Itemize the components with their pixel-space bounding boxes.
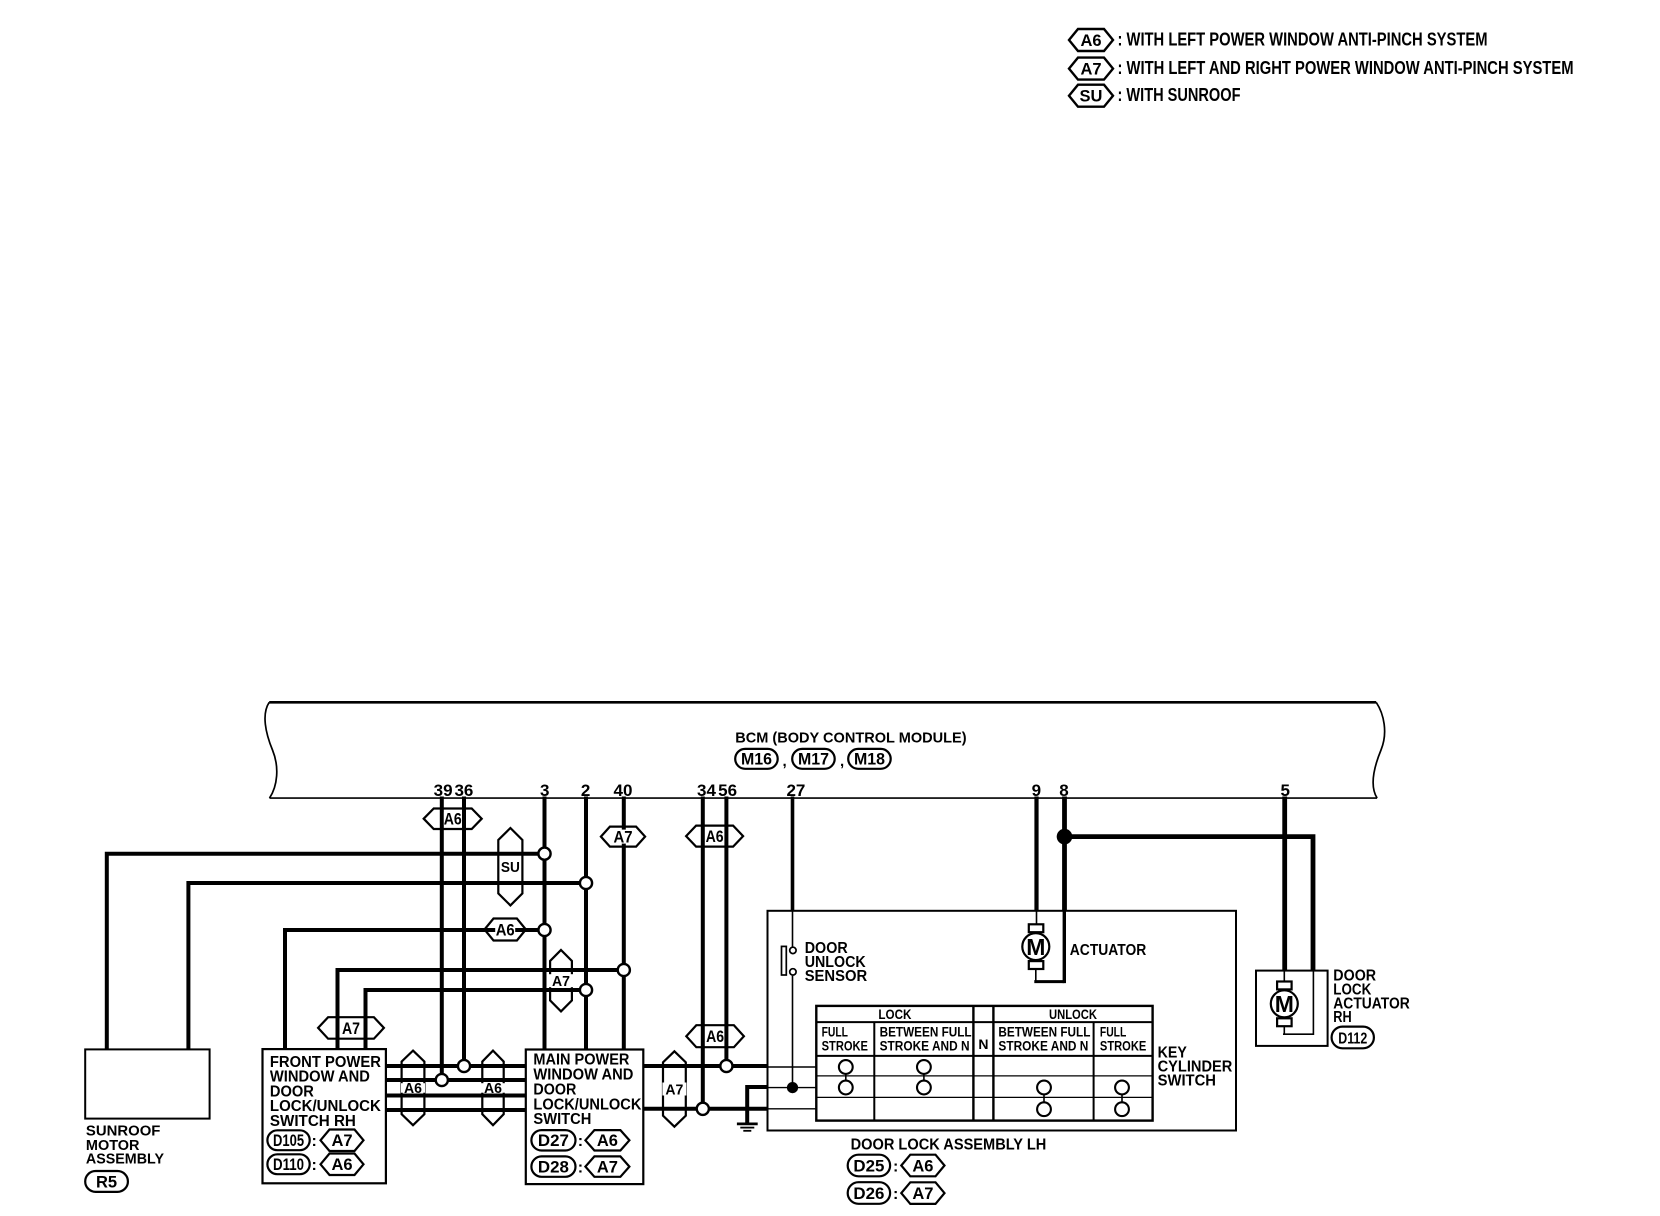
wire front switch to pin 3 [285,930,545,1049]
junction h2 / pin39 [436,1074,448,1086]
connector D110 [267,1154,309,1174]
label A6 vertical left [401,1083,425,1093]
svg-text:D112: D112 [1338,1030,1367,1047]
svg-text:BETWEEN FULL: BETWEEN FULL [880,1025,972,1040]
wire from BCM pin 2 [584,797,588,1050]
svg-text:ACTUATOR: ACTUATOR [1070,942,1147,959]
svg-text:SWITCH: SWITCH [533,1111,591,1128]
svg-text:A7: A7 [331,1132,352,1150]
wire branch from pin 8 to door lock actuator RH [1065,837,1314,971]
svg-text:FULL: FULL [1100,1025,1126,1040]
svg-text:D105: D105 [273,1132,304,1150]
connector M18 [848,749,891,769]
label A6 on wires 39/36 [444,812,462,825]
svg-text:BETWEEN FULL: BETWEEN FULL [998,1025,1090,1040]
feed wire row A [768,1066,817,1068]
svg-text:M: M [1275,991,1294,1017]
wire sunroof motor 2 to pin 2 [188,883,586,1049]
connector D27 [531,1130,575,1150]
wire h2 front to main switch [386,1078,526,1082]
door unlock sensor [782,946,787,975]
svg-text:SWITCH: SWITCH [1158,1073,1216,1090]
connector D26 [848,1182,890,1204]
connector A6 vertical left of front-main wires [402,1051,425,1126]
actuator motor feed wires [1036,911,1038,925]
svg-text:STROKE: STROKE [1100,1039,1146,1054]
wire h3 front to main switch [386,1094,526,1098]
svg-text:RH: RH [1333,1009,1351,1026]
svg-text:A6: A6 [597,1132,618,1150]
svg-text:A6: A6 [404,1081,422,1097]
junction wireA / pin40 [618,964,630,976]
door lock actuator RH box [1256,971,1328,1046]
ground symbol [745,1109,749,1124]
junction front / pin3 [538,924,550,936]
svg-text:,: , [783,753,787,770]
svg-text:D25: D25 [853,1157,884,1175]
wire from BCM pin 5 [1282,797,1287,971]
svg-text:A6: A6 [484,1081,502,1097]
label A6 vertical right [481,1083,505,1093]
sunroof motor assembly box [85,1049,209,1118]
connector A7 vertical on wires A/B [550,950,572,1011]
svg-text:A7: A7 [552,973,570,990]
svg-text:A7: A7 [665,1081,683,1098]
svg-text:: WITH LEFT AND RIGHT POWER WI: : WITH LEFT AND RIGHT POWER WINDOW ANTI-… [1118,58,1574,78]
svg-text::: : [893,1159,898,1176]
connector D105 [267,1130,309,1150]
wire elbow to row B [747,1087,767,1109]
connector A7 on wire 40 [601,827,645,847]
junction r2 / pin34 [697,1103,709,1115]
svg-text::: : [312,1157,317,1174]
connector D28 [531,1156,575,1176]
svg-text:N: N [978,1036,988,1052]
key cylinder switch table [816,1006,1152,1121]
wire from BCM pin 27 [791,797,795,911]
wire from BCM pin 40 [622,797,626,1050]
wire front switch to pin 2 [366,990,587,1049]
svg-text::: : [893,1186,898,1203]
junction sunroof2 / pin2 [580,877,592,889]
wire from BCM pin 3 [543,797,547,1050]
svg-text:A7: A7 [1080,60,1101,78]
svg-text:STROKE AND N: STROKE AND N [880,1039,970,1054]
svg-text:M16: M16 [741,751,772,769]
connector D25 [848,1155,890,1177]
wire from BCM pin 9 [1034,797,1038,911]
label A6 on front-pin3 wire [495,923,515,937]
svg-text:27: 27 [786,781,805,800]
feed wire row C [768,1108,817,1110]
connector R5 [85,1171,128,1192]
connector M16 [735,749,778,769]
svg-text:34: 34 [697,781,716,800]
svg-text:,: , [840,753,844,770]
connector A6 vertical right of front-main wires [482,1051,503,1126]
actuator RH motor M [1277,982,1292,990]
wire from BCM pin 56 [724,797,728,1067]
svg-text:SENSOR: SENSOR [805,968,868,985]
svg-text:ASSEMBLY: ASSEMBLY [86,1152,164,1168]
svg-text:: WITH LEFT POWER WINDOW ANTI-: : WITH LEFT POWER WINDOW ANTI-PINCH SYST… [1118,30,1488,50]
label SU [500,860,520,874]
svg-text::: : [578,1160,583,1177]
legend connector SU [1069,85,1113,107]
svg-text:LOCK: LOCK [878,1006,911,1022]
main power window and door lock/unlock switch box [526,1050,644,1185]
svg-text:A6: A6 [1080,32,1101,50]
door unlock sensor wire [792,911,794,947]
label A6 on wires 34/56 lower [706,1030,724,1043]
svg-text:M17: M17 [798,751,829,769]
wire sunroof motor 1 to pin 3 [107,854,545,1050]
svg-text:FULL: FULL [822,1025,848,1040]
svg-text:A7: A7 [614,829,633,847]
connector A7 for D26 [901,1182,944,1204]
svg-text:A7: A7 [597,1158,618,1176]
connector A6 on wires 39/36 [424,809,482,830]
legend connector A7 [1069,58,1113,80]
connector M17 [792,749,835,769]
wire from BCM pin 39 [440,797,444,1081]
connector A7 for D105 [321,1130,364,1152]
contacts unlock between full stroke and N [1043,1088,1045,1110]
contacts lock full stroke [845,1067,847,1088]
label A7 above front switch [342,1021,360,1034]
label A7 on wire 40 [613,830,633,844]
connector A7 above front switch [318,1017,384,1038]
connector A6 on wires 34/56 lower [686,1025,744,1047]
junction on wire 8 [1057,829,1073,845]
connector A6 for D110 [321,1154,364,1176]
contacts unlock full stroke [1121,1088,1123,1110]
wire main switch to door lock assembly row A [643,1064,767,1068]
connector A6 on front-pin3 wire [485,919,526,941]
label A7 vertical right of main switch [662,1083,686,1096]
svg-text:D110: D110 [273,1156,304,1174]
label A7 on wires A/B [549,974,573,987]
svg-text:A6: A6 [444,811,462,829]
label A6 on wires 34/56 upper [706,830,724,843]
svg-text:A6: A6 [496,921,515,939]
svg-text:R5: R5 [96,1173,117,1191]
svg-text:STROKE: STROKE [822,1039,868,1054]
svg-text:A7: A7 [342,1020,360,1038]
wire front switch to pin 40 [338,970,624,1049]
svg-text:SU: SU [1080,88,1103,106]
connector A7 for D28 [585,1156,629,1176]
feed wire row B [768,1087,817,1089]
junction sunroof1 / pin3 [538,848,550,860]
legend connector A6 [1069,29,1113,51]
svg-text:UNLOCK: UNLOCK [1049,1006,1097,1022]
svg-text:BCM (BODY CONTROL MODULE): BCM (BODY CONTROL MODULE) [735,730,966,747]
actuator motor M [1029,924,1044,932]
svg-text:SWITCH RH: SWITCH RH [270,1113,356,1130]
svg-text:A7: A7 [912,1185,933,1203]
wire from BCM pin 34 [701,797,705,1109]
svg-text:A6: A6 [706,1028,724,1046]
front power window and door lock/unlock switch RH box [263,1049,386,1183]
connector A6 for D27 [585,1130,629,1150]
svg-text:SU: SU [501,859,520,876]
wire from BCM pin 36 [462,797,466,1067]
svg-text::: : [578,1133,583,1150]
wire main switch to ground / row C [643,1107,767,1111]
svg-text::: : [312,1133,317,1150]
junction sensor / row B [787,1082,798,1093]
connector A6 on wires 34/56 upper [686,826,743,847]
svg-text:DOOR LOCK ASSEMBLY LH: DOOR LOCK ASSEMBLY LH [851,1137,1047,1154]
connector A7 vertical right of main switch [663,1051,686,1126]
wire h1 front to main switch [386,1064,526,1068]
svg-text:M18: M18 [854,751,885,769]
svg-text:A6: A6 [331,1156,352,1174]
connector D112 [1332,1027,1374,1049]
svg-text:A6: A6 [912,1157,933,1175]
contacts lock between full stroke and N [923,1067,925,1088]
door lock assembly LH box [768,911,1237,1131]
svg-text:M: M [1026,934,1045,960]
svg-text:D26: D26 [853,1185,884,1203]
svg-text:STROKE AND N: STROKE AND N [998,1039,1088,1054]
svg-text:D28: D28 [538,1158,569,1176]
wire h4 front to main switch [386,1108,526,1112]
BCM (Body Control Module) band [265,702,277,798]
junction r1 / pin56 [720,1060,732,1072]
wire from BCM pin 8 [1062,797,1067,911]
svg-text:D27: D27 [538,1132,569,1150]
connector SU on sunroof wires [498,828,522,905]
svg-text:: WITH SUNROOF: : WITH SUNROOF [1118,85,1241,105]
connector A6 for D25 [901,1155,944,1177]
junction h1 / pin36 [458,1060,470,1072]
actuator RH motor wires [1283,971,1285,982]
svg-text:A6: A6 [706,828,724,846]
junction wireB / pin2 [580,984,592,996]
